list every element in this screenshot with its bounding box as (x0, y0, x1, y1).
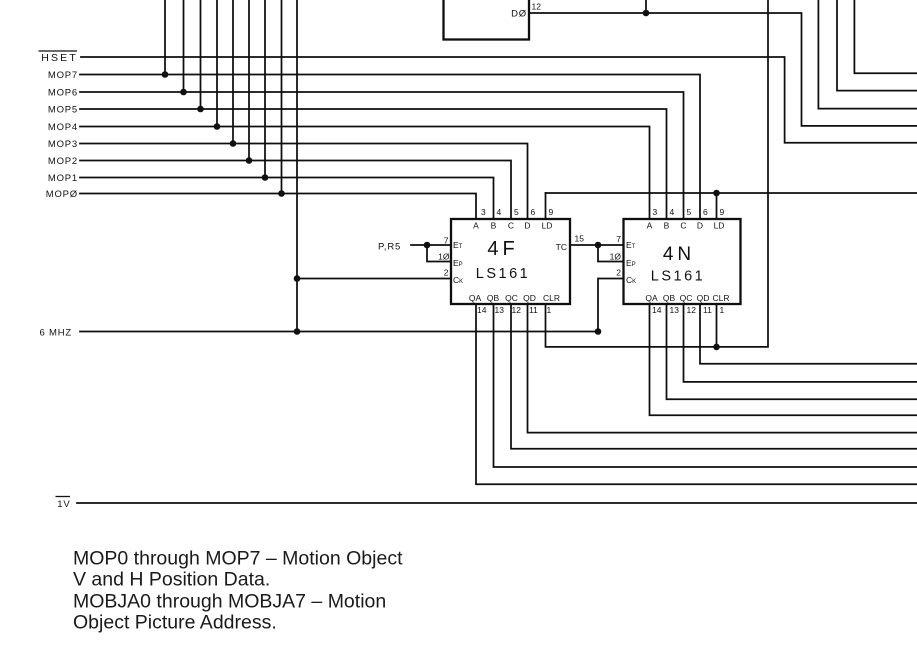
svg-text:LD: LD (714, 221, 725, 231)
wire EP link 4F (427, 245, 451, 262)
node D0 junction (643, 10, 650, 17)
svg-text:QA: QA (469, 293, 482, 303)
svg-text:13: 13 (495, 305, 505, 315)
svg-text:EP: EP (453, 258, 463, 268)
wire QA 4N (650, 304, 917, 415)
wire MOP6 tap from top (183, 0, 185, 92)
wire QC 4N (684, 304, 917, 382)
IC U? (top, partial) box (444, 0, 530, 40)
svg-text:11: 11 (529, 305, 538, 315)
wire QB 4F (494, 304, 917, 467)
svg-text:ET: ET (626, 240, 636, 250)
svg-text:4F: 4F (487, 238, 518, 260)
svg-text:Object Picture Address.: Object Picture Address. (73, 612, 277, 634)
svg-text:QD: QD (697, 293, 710, 303)
node MOP2 junction (246, 157, 253, 164)
svg-text:LD: LD (542, 221, 553, 231)
node MOP7 junction (162, 71, 169, 78)
wire QD 4F (528, 304, 917, 433)
svg-text:CLR: CLR (543, 293, 560, 303)
wire MOP4 (80, 127, 650, 220)
wire HSET (81, 57, 917, 143)
svg-text:QB: QB (487, 293, 500, 303)
svg-text:4: 4 (670, 207, 675, 217)
svg-text:MOP6: MOP6 (48, 88, 78, 99)
wire MOP1 tap from top (264, 0, 266, 178)
svg-text:12: 12 (687, 305, 697, 315)
wire 1V (77, 502, 917, 504)
svg-text:QD: QD (523, 293, 536, 303)
svg-text:12: 12 (532, 2, 542, 12)
svg-text:7: 7 (444, 236, 449, 246)
svg-text:7: 7 (616, 234, 621, 244)
svg-text:MOP1: MOP1 (48, 173, 78, 184)
svg-text:A: A (473, 221, 479, 231)
svg-text:ET: ET (453, 240, 463, 250)
svg-text:15: 15 (575, 234, 585, 244)
svg-text:9: 9 (720, 207, 725, 217)
wire MOP3 tap from top (232, 0, 234, 144)
svg-text:MOBJA0 through MOBJA7 – Motion: MOBJA0 through MOBJA7 – Motion (73, 591, 386, 613)
svg-text:LS161: LS161 (651, 269, 705, 285)
wire QA 4F (476, 304, 917, 484)
svg-text:MOPØ: MOPØ (46, 189, 78, 200)
svg-text:2: 2 (444, 268, 449, 278)
wire CK 4F (297, 278, 451, 280)
node CK tee (294, 275, 301, 282)
svg-text:MOP2: MOP2 (48, 156, 78, 167)
svg-text:D: D (524, 221, 530, 231)
svg-text:P,R5: P,R5 (378, 242, 401, 253)
svg-text:C: C (508, 221, 514, 231)
svg-text:13: 13 (670, 305, 680, 315)
wire MOP1 (80, 178, 494, 220)
wire QD 4N (700, 304, 917, 364)
wire LD stub 4N (716, 193, 718, 219)
svg-text:4: 4 (497, 207, 502, 217)
wire P,R5 to ET (411, 244, 451, 246)
svg-text:QB: QB (663, 293, 676, 303)
svg-text:CK: CK (453, 275, 463, 285)
svg-text:2: 2 (616, 268, 621, 278)
svg-text:1: 1 (720, 305, 725, 315)
svg-text:HSET: HSET (41, 52, 78, 64)
svg-text:6: 6 (531, 207, 536, 217)
svg-text:9: 9 (549, 207, 554, 217)
node MOP3 junction (230, 140, 237, 147)
svg-text:1Ø: 1Ø (610, 252, 622, 262)
node LD junction (713, 190, 720, 197)
node MOP6 junction (180, 89, 187, 96)
svg-text:1V: 1V (57, 499, 70, 510)
svg-text:1: 1 (547, 305, 552, 315)
wire 6MHZ (80, 331, 598, 333)
wire D0 riser to top (645, 0, 647, 13)
svg-text:5: 5 (514, 207, 519, 217)
svg-text:QC: QC (680, 293, 693, 303)
wire 6MHZ riser (296, 0, 298, 332)
wire bus right 2 (837, 0, 917, 91)
node MOP0 junction (278, 190, 285, 197)
IC 4N box (624, 219, 741, 304)
svg-text:QA: QA (645, 293, 658, 303)
wire MOP5 (80, 109, 667, 219)
node TC junction (595, 242, 602, 249)
wire MOP2 tap from top (248, 0, 250, 161)
svg-text:CK: CK (626, 275, 636, 285)
svg-text:5: 5 (687, 207, 692, 217)
wire MOP3 (80, 144, 528, 220)
svg-text:6 MHZ: 6 MHZ (40, 328, 73, 339)
wire EP link 4N (598, 245, 624, 262)
node MOP4 junction (214, 123, 221, 130)
svg-text:3: 3 (653, 207, 658, 217)
svg-text:3: 3 (481, 207, 486, 217)
wire MOP0 tap from top (281, 0, 283, 194)
svg-text:14: 14 (652, 305, 662, 315)
svg-text:1Ø: 1Ø (438, 252, 450, 262)
node 6MHZ CK4N junction (595, 328, 602, 335)
svg-text:MOP0 through MOP7 – Motion Obj: MOP0 through MOP7 – Motion Object (73, 548, 403, 570)
svg-text:V and H Position Data.: V and H Position Data. (73, 569, 270, 591)
svg-text:11: 11 (703, 305, 712, 315)
wire CLR net (546, 0, 769, 347)
wire bus right 1 (818, 0, 917, 109)
node 6MHZ riser junction (294, 328, 301, 335)
wire MOP0 (80, 194, 476, 220)
svg-text:6: 6 (703, 207, 708, 217)
wire TC to ET 4N (570, 244, 624, 246)
wire bus right 3 (854, 0, 917, 73)
wire QC 4F (511, 304, 917, 449)
svg-text:4N: 4N (663, 244, 695, 265)
wire LD net (546, 192, 917, 194)
svg-text:D: D (697, 221, 703, 231)
svg-text:14: 14 (477, 305, 487, 315)
svg-text:QC: QC (505, 293, 518, 303)
wire MOP4 tap from top (216, 0, 218, 127)
wire MOP7 (80, 75, 700, 220)
svg-text:12: 12 (512, 305, 522, 315)
wire CK 4N (598, 279, 624, 332)
wire QB 4N (667, 304, 917, 399)
wire MOP6 (80, 92, 684, 219)
svg-text:A: A (647, 221, 653, 231)
svg-text:MOP7: MOP7 (48, 70, 78, 81)
svg-text:MOP4: MOP4 (48, 122, 78, 133)
svg-text:MOP5: MOP5 (48, 105, 78, 116)
svg-text:DØ: DØ (511, 9, 527, 20)
node MOP1 junction (262, 174, 269, 181)
node P,R5 junction (424, 242, 431, 249)
svg-text:B: B (664, 221, 670, 231)
svg-text:LS161: LS161 (476, 266, 530, 282)
wire MOP2 (80, 161, 511, 220)
svg-text:TC: TC (556, 242, 567, 252)
wire MOP5 tap from top (200, 0, 202, 109)
wire LD stub 4F (545, 193, 547, 219)
svg-text:MOP3: MOP3 (48, 139, 78, 150)
wire D0 output (529, 13, 917, 126)
node CLR junction (713, 344, 720, 351)
svg-text:EP: EP (626, 258, 636, 268)
IC 4F box (451, 219, 570, 304)
svg-text:C: C (680, 221, 686, 231)
svg-text:CLR: CLR (712, 293, 729, 303)
wire CLR stub 4N (716, 304, 718, 347)
wire MOP7 tap from top (164, 0, 166, 75)
svg-text:B: B (491, 221, 497, 231)
node MOP5 junction (197, 106, 204, 113)
